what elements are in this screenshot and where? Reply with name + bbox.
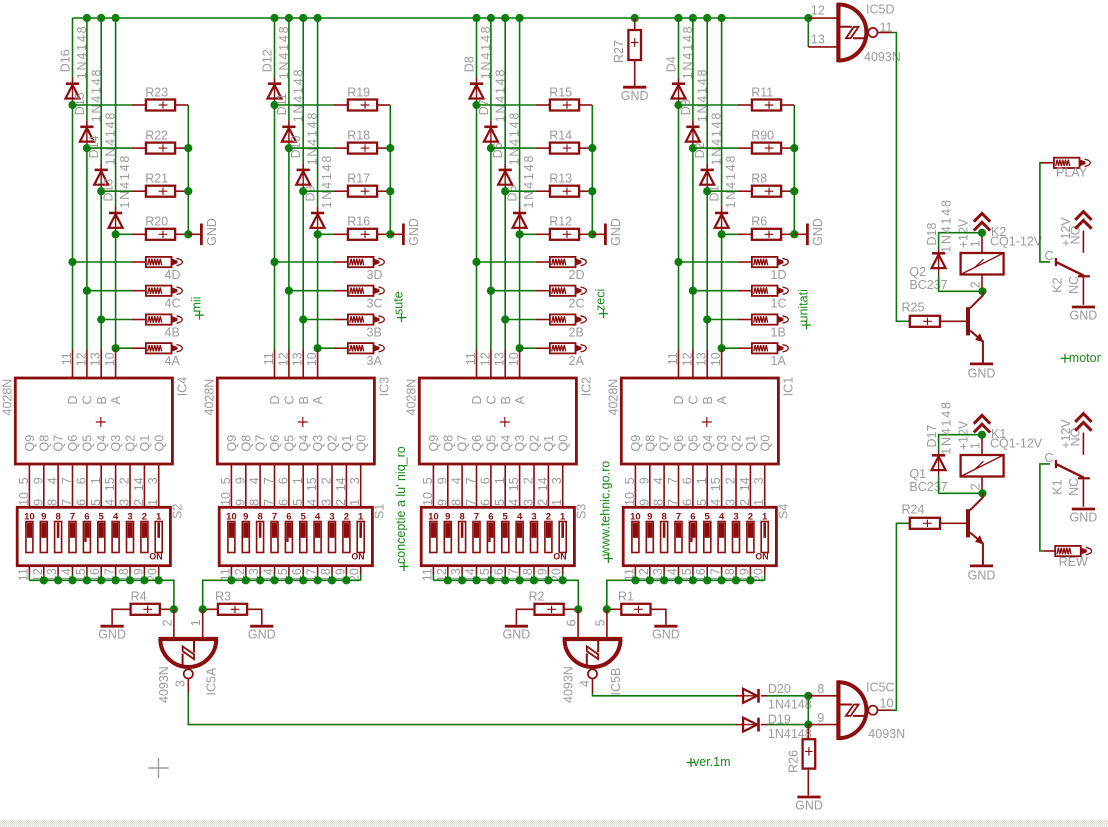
wire: [1040, 163, 1050, 262]
wire: [288, 464, 290, 507]
svg-text:IC3: IC3: [378, 377, 392, 397]
pin number 7: [262, 477, 276, 484]
svg-text:Q8: Q8: [643, 435, 657, 452]
junction: [978, 229, 986, 237]
pin number 5: [89, 499, 103, 506]
junction: [112, 344, 120, 352]
wire: [663, 464, 665, 507]
svg-text:2: 2: [536, 499, 550, 506]
wire: [793, 105, 795, 234]
svg-text:CQ1-12V: CQ1-12V: [990, 235, 1043, 249]
svg-text:3: 3: [531, 511, 536, 522]
wire: [43, 566, 45, 581]
pin number 14: [60, 568, 74, 582]
pin number 5: [291, 499, 305, 506]
wire: [692, 18, 694, 127]
svg-text:4: 4: [315, 511, 321, 522]
connector pin 2C: [550, 286, 586, 311]
svg-text:4: 4: [517, 511, 523, 522]
diode D13 1N4148: [102, 154, 133, 228]
junction: [314, 14, 322, 22]
wire: [749, 566, 751, 581]
wire: [57, 566, 59, 581]
junction: [97, 576, 105, 584]
wire: [764, 566, 766, 581]
wire: [940, 522, 966, 524]
svg-text:12: 12: [478, 352, 492, 366]
diode D17 1N4148: [925, 400, 983, 493]
wire: [57, 464, 59, 507]
svg-text:Q1: Q1: [744, 435, 758, 452]
pin number 10: [17, 492, 31, 506]
wire: [982, 493, 984, 497]
svg-text:GND: GND: [98, 628, 126, 642]
svg-text:GND: GND: [968, 568, 996, 582]
svg-text:9: 9: [243, 511, 248, 522]
svg-text:6: 6: [286, 511, 291, 522]
wire: [86, 142, 88, 149]
DIP switch S4: [623, 504, 790, 566]
wire: [100, 566, 102, 581]
junction: [790, 144, 798, 152]
svg-text:GND: GND: [621, 89, 649, 103]
junction: [472, 14, 480, 22]
svg-text:Q1: Q1: [909, 467, 926, 481]
wire: [476, 99, 478, 106]
resistor R22: [145, 128, 175, 153]
svg-text:2B: 2B: [569, 326, 584, 340]
connector pin 1A: [752, 343, 788, 368]
pin number 17: [103, 568, 117, 582]
pin number 16: [492, 568, 506, 582]
svg-text:12: 12: [680, 352, 694, 366]
+12V supply: [956, 213, 990, 248]
pin number 9: [435, 499, 449, 506]
svg-text:6: 6: [478, 477, 492, 484]
junction: [97, 315, 105, 323]
svg-text:4028N: 4028N: [404, 379, 418, 416]
resistor R17: [347, 172, 377, 197]
diode D8 1N4148: [463, 25, 494, 99]
junction: [112, 230, 120, 238]
diode D18 1N4148: [925, 198, 983, 291]
svg-text:1A: 1A: [771, 354, 787, 368]
pin number 2: [118, 477, 132, 484]
svg-text:1N4148: 1N4148: [939, 198, 953, 253]
svg-text:5: 5: [301, 511, 307, 522]
svg-text:4: 4: [113, 511, 119, 522]
wire: [706, 566, 708, 581]
junction: [184, 230, 192, 238]
pin number 6: [680, 499, 694, 506]
wire: [447, 464, 449, 507]
svg-text:IC1: IC1: [782, 377, 796, 397]
svg-text:8: 8: [46, 499, 60, 506]
wire: [245, 464, 247, 507]
DIP switch S2: [17, 504, 184, 566]
svg-text:4093N: 4093N: [864, 50, 901, 64]
svg-text:7: 7: [464, 499, 478, 506]
svg-text:8: 8: [652, 499, 666, 506]
svg-text:4C: 4C: [165, 297, 181, 311]
svg-text:K1: K1: [1050, 479, 1064, 494]
svg-text:Q0: Q0: [758, 435, 772, 452]
wire: [230, 464, 232, 507]
wire: [504, 185, 506, 192]
svg-text:7: 7: [60, 499, 74, 506]
junction: [199, 605, 207, 613]
junction: [458, 576, 466, 584]
junction: [83, 14, 91, 22]
pin number 4: [709, 499, 723, 506]
NAND gate IC5C 4093N: [817, 680, 905, 741]
svg-text:2: 2: [546, 511, 551, 522]
wire: [288, 148, 290, 291]
diode D12 1N4148: [261, 25, 292, 99]
pin number 7: [464, 499, 478, 506]
wire: [461, 566, 463, 581]
wire: [274, 566, 276, 581]
pin number 1: [550, 499, 564, 506]
wire: [693, 147, 752, 149]
pin number 6: [478, 477, 492, 484]
+12V supply: [1059, 414, 1092, 449]
pin number 11: [16, 568, 30, 581]
svg-text:8: 8: [248, 499, 262, 506]
wire: [432, 464, 434, 507]
pin number 11: [218, 568, 232, 581]
svg-text:IC5A: IC5A: [205, 667, 219, 695]
svg-text:B: B: [499, 396, 513, 404]
wire: [116, 347, 146, 349]
svg-text:1C: 1C: [771, 297, 787, 311]
net label motor: [1061, 351, 1101, 365]
pin number 7: [666, 477, 680, 484]
junction: [588, 230, 596, 238]
pin number 11: [622, 568, 636, 581]
pin number 6: [478, 499, 492, 506]
svg-text:R6: R6: [751, 215, 767, 229]
svg-text:C: C: [1045, 451, 1054, 465]
diode D2 1N4148: [693, 111, 724, 185]
connector pin 4D: [146, 257, 182, 282]
svg-text:2A: 2A: [569, 354, 585, 368]
wire: [447, 566, 449, 581]
svg-text:1N4148: 1N4148: [724, 154, 738, 209]
svg-text:1: 1: [156, 511, 162, 522]
wire: [579, 147, 592, 149]
svg-text:6: 6: [690, 511, 695, 522]
svg-text:GND: GND: [1070, 309, 1098, 323]
ground: [390, 218, 421, 246]
junction: [603, 605, 611, 613]
wire: [982, 341, 984, 362]
svg-text:3B: 3B: [367, 326, 382, 340]
pin number 4: [248, 477, 262, 484]
svg-text:Q3: Q3: [715, 435, 729, 452]
svg-text:ON: ON: [351, 551, 364, 561]
svg-text:13: 13: [493, 352, 507, 366]
IC IC2 4028N BCD decoder: [404, 352, 593, 464]
svg-text:D14: D14: [87, 135, 101, 158]
pin number 18: [117, 568, 131, 582]
svg-text:GND: GND: [248, 628, 276, 642]
svg-text:7: 7: [474, 511, 479, 522]
svg-text:ver.1m: ver.1m: [693, 755, 731, 769]
svg-text:C: C: [687, 395, 701, 404]
resistor R8: [751, 172, 781, 197]
junction: [501, 14, 509, 22]
svg-text:C: C: [1045, 249, 1054, 263]
wire: [707, 319, 752, 321]
svg-text:GND: GND: [407, 218, 421, 246]
svg-text:Q0: Q0: [354, 435, 368, 452]
junction: [487, 287, 495, 295]
resistor R1: [618, 590, 651, 615]
wire: [377, 104, 390, 106]
svg-text:5: 5: [493, 499, 507, 506]
wire: [86, 566, 88, 581]
pin number 15: [103, 477, 117, 491]
junction: [285, 576, 293, 584]
svg-text:Q3: Q3: [109, 435, 123, 452]
pin number 20: [752, 568, 766, 582]
svg-text:D5: D5: [506, 185, 520, 201]
wire: [100, 320, 102, 379]
DIP switch S3: [421, 504, 588, 566]
resistor R27: [612, 18, 641, 63]
junction: [732, 576, 740, 584]
svg-text:5: 5: [99, 511, 105, 522]
pin number 17: [709, 568, 723, 582]
wire: [115, 18, 117, 213]
junction: [746, 576, 754, 584]
junction: [718, 576, 726, 584]
resistor R16: [347, 215, 377, 240]
connector pin 3C: [348, 286, 384, 311]
svg-text:3: 3: [522, 499, 536, 506]
svg-text:A: A: [513, 396, 527, 405]
svg-text:3: 3: [320, 499, 334, 506]
svg-text:8: 8: [459, 511, 464, 522]
junction: [487, 144, 495, 152]
svg-text:4: 4: [652, 477, 666, 484]
svg-text:R18: R18: [347, 128, 370, 142]
svg-text:9: 9: [31, 477, 45, 484]
pin number 6: [276, 477, 290, 484]
svg-text:D10: D10: [289, 135, 303, 158]
svg-text:B: B: [297, 396, 311, 404]
svg-text:3: 3: [348, 477, 362, 484]
wire: [274, 105, 276, 262]
svg-text:R20: R20: [145, 215, 168, 229]
pin number 4: [305, 499, 319, 506]
wire: [318, 233, 348, 235]
svg-text:CQ1-12V: CQ1-12V: [990, 437, 1043, 451]
junction: [386, 144, 394, 152]
svg-text:3: 3: [724, 499, 738, 506]
resistor R12: [549, 215, 579, 240]
junction: [270, 101, 278, 109]
pin number 1: [348, 499, 362, 506]
junction: [631, 14, 639, 22]
junction: [674, 258, 682, 266]
junction: [804, 721, 812, 729]
svg-text:1: 1: [189, 619, 203, 626]
pin number 17: [507, 568, 521, 582]
resistor R90: [751, 128, 781, 153]
svg-text:11: 11: [262, 352, 276, 365]
pin number 2: [536, 499, 550, 506]
wire: [187, 679, 189, 694]
junction: [328, 576, 336, 584]
wire: [781, 233, 794, 235]
svg-text:C: C: [485, 395, 499, 404]
svg-text:D4: D4: [665, 56, 679, 72]
ground: [98, 626, 126, 642]
pin number 19: [737, 568, 751, 582]
wire: [491, 290, 550, 292]
svg-text:9: 9: [31, 499, 45, 506]
svg-text:2: 2: [320, 477, 334, 484]
diode D7 1N4148: [477, 68, 508, 142]
wire: [1040, 464, 1050, 551]
svg-text:A: A: [311, 396, 325, 405]
svg-text:R4: R4: [131, 590, 147, 604]
junction: [242, 576, 250, 584]
resistor R23: [145, 85, 175, 110]
svg-text:3: 3: [127, 511, 132, 522]
pin number 2: [522, 477, 536, 484]
wire: [345, 566, 347, 581]
pin number 20: [550, 568, 564, 582]
svg-text:15: 15: [507, 477, 521, 491]
cursor cross: [149, 758, 169, 778]
junction: [660, 576, 668, 584]
diode D1 1N4148: [708, 154, 739, 228]
connector pin REW: [1042, 546, 1091, 569]
pin number 5: [219, 477, 233, 484]
pin number 1: [146, 499, 160, 506]
pin number 6: [276, 499, 290, 506]
connector pin 1B: [752, 314, 788, 339]
pin number 2: [320, 477, 334, 484]
svg-text:2: 2: [334, 499, 348, 506]
junction: [703, 14, 711, 22]
wire +V top bus: [73, 17, 809, 19]
junction: [314, 230, 322, 238]
svg-text:Q2: Q2: [909, 265, 926, 279]
svg-text:1B: 1B: [771, 326, 786, 340]
pin number 4: [507, 499, 521, 506]
pin number 15: [74, 568, 88, 582]
svg-text:sute: sute: [392, 291, 406, 315]
svg-text:conceptie a lu' niq_ro: conceptie a lu' niq_ro: [394, 446, 408, 564]
wire: [28, 464, 30, 507]
svg-text:6: 6: [84, 511, 89, 522]
wire: [101, 319, 146, 321]
svg-text:4028N: 4028N: [606, 379, 620, 416]
+12V supply: [1059, 212, 1092, 247]
pin number 13: [449, 568, 463, 582]
svg-text:2: 2: [522, 477, 536, 484]
svg-text:9: 9: [817, 711, 824, 725]
svg-text:10: 10: [103, 352, 117, 366]
svg-text:4: 4: [46, 477, 60, 484]
svg-text:10: 10: [623, 492, 637, 506]
junction: [112, 576, 120, 584]
connector pin 3B: [348, 314, 384, 339]
wire: [808, 696, 836, 725]
wire: [377, 147, 390, 149]
pin number 12: [31, 568, 45, 582]
svg-text:R24: R24: [902, 503, 925, 517]
wire: [476, 105, 478, 262]
wire: [982, 543, 984, 564]
svg-text:15: 15: [709, 477, 723, 491]
svg-text:9: 9: [435, 477, 449, 484]
svg-text:R1: R1: [618, 590, 634, 604]
connector pin 3D: [348, 257, 384, 282]
svg-text:9: 9: [637, 499, 651, 506]
net label sute: [392, 291, 406, 322]
svg-text:3C: 3C: [367, 297, 383, 311]
pin number 9: [233, 477, 247, 484]
svg-text:Q7: Q7: [52, 435, 66, 452]
svg-text:1: 1: [968, 442, 982, 449]
svg-text:13: 13: [695, 352, 709, 366]
svg-text:R26: R26: [786, 750, 800, 773]
wire: [345, 464, 347, 507]
junction: [68, 101, 76, 109]
wire: [547, 566, 549, 581]
junction: [674, 14, 682, 22]
junction: [472, 101, 480, 109]
wire: [158, 464, 160, 507]
svg-text:1D: 1D: [771, 268, 787, 282]
svg-text:Q5: Q5: [81, 435, 95, 452]
diode D4 1N4148: [665, 25, 696, 99]
pin number 9: [637, 477, 651, 484]
diode D14 1N4148: [87, 111, 118, 185]
svg-text:R3: R3: [215, 590, 231, 604]
svg-text:Q5: Q5: [485, 435, 499, 452]
svg-text:Q9: Q9: [225, 435, 239, 452]
svg-text:8: 8: [257, 511, 262, 522]
junction: [40, 576, 48, 584]
svg-text:D3: D3: [679, 99, 693, 115]
resistor R2: [529, 590, 564, 615]
svg-text:13: 13: [89, 352, 103, 366]
ground: [795, 769, 823, 813]
svg-text:6: 6: [680, 477, 694, 484]
junction: [790, 230, 798, 238]
wire: [73, 104, 146, 106]
svg-text:3: 3: [146, 477, 160, 484]
wire: [520, 347, 550, 349]
pin number 5: [493, 499, 507, 506]
junction: [703, 576, 711, 584]
junction: [270, 576, 278, 584]
wire: [302, 566, 304, 581]
wire: [101, 190, 146, 192]
svg-text:Q8: Q8: [441, 435, 455, 452]
svg-text:R90: R90: [751, 128, 774, 142]
resistor R11: [751, 85, 781, 110]
svg-text:R23: R23: [145, 85, 168, 99]
svg-text:D1: D1: [708, 185, 722, 201]
wire: [591, 105, 593, 234]
